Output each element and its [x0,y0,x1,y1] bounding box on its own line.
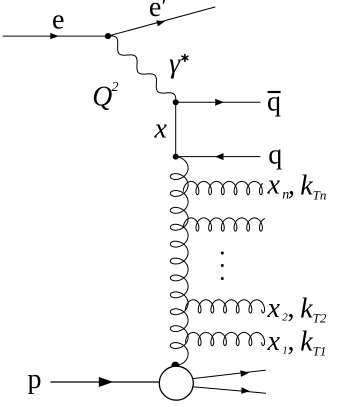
vertex dot gluon-proton blob [171,362,179,370]
svg-text:γ: γ [169,49,181,80]
arrow on p line (large) [99,377,114,387]
svg-text:T1: T1 [313,344,327,359]
svg-text:e: e [52,5,64,36]
wire: incoming proton line p [51,381,160,383]
svg-text:p: p [28,364,42,395]
arrow on upper remnant line [240,370,249,377]
gluon rung x_n k_Tn [183,181,262,194]
ellipsis dot 2 [221,264,224,267]
svg-text:Q: Q [92,81,112,113]
svg-text:,: , [288,326,295,357]
arrow on e line [50,33,58,39]
svg-text:e′: e′ [149,0,168,23]
gluon rung (unlabeled) [183,218,264,231]
svg-text:x: x [267,170,281,201]
wire: proton remnant lower line [193,387,266,393]
svg-text:,: , [288,170,295,201]
wire: outgoing antiquark line qbar [176,101,260,103]
svg-text:k: k [300,294,313,325]
wire: quark line q [176,156,260,158]
arrow on q line (pointing left) [215,153,224,160]
vertex dot e-gamma [105,33,111,39]
gluon rung x_2 k_T2 [186,300,265,313]
svg-text:T2: T2 [313,311,327,326]
svg-text:x: x [154,114,168,145]
wire: quark propagator x (vertical) [175,102,177,156]
arrow on qbar line [215,99,224,106]
proton blob circle [159,366,193,400]
arrow on lower remnant line [241,387,250,394]
wire: proton remnant upper line [193,370,266,378]
ellipsis dot 3 [221,277,224,280]
ellipsis dot 1 [221,252,224,255]
wire: incoming electron line e [3,35,108,37]
arrow on e' line [156,20,165,26]
svg-text:Tn: Tn [313,188,327,203]
photon gamma* wavy propagator [108,36,176,102]
svg-text:k: k [300,171,313,202]
svg-text:x: x [267,293,281,324]
svg-text:,: , [288,293,295,324]
svg-text:k: k [300,327,313,358]
wire: scattered electron line e' [108,7,215,36]
svg-text:2: 2 [112,80,119,95]
vertex dot gamma-q [173,99,179,105]
gluon rung x_1 k_T1 [186,332,265,345]
svg-text:x: x [267,326,281,357]
gluon ladder vertical coil [170,157,188,366]
svg-text:q: q [268,139,282,170]
vertex dot q-gluon [173,154,179,160]
